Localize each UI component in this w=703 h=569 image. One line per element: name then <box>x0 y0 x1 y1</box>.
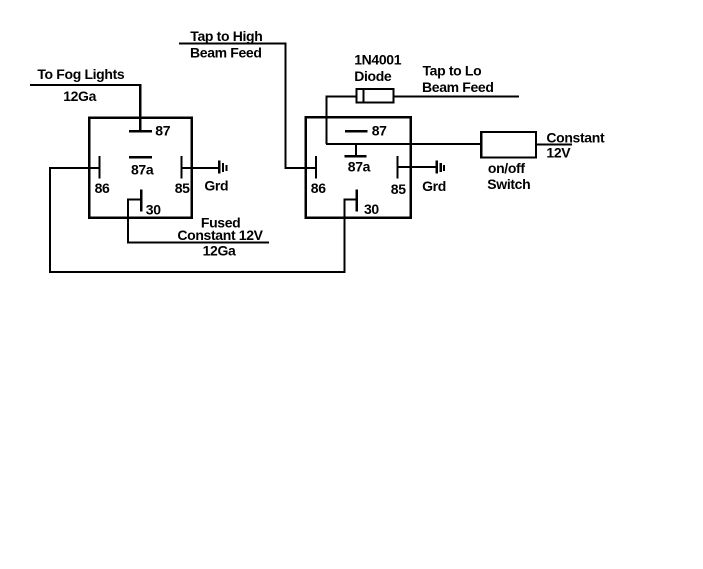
svg-text:Diode: Diode <box>354 68 392 84</box>
svg-text:Grd: Grd <box>204 177 228 193</box>
svg-text:Beam Feed: Beam Feed <box>422 79 494 95</box>
svg-text:12Ga: 12Ga <box>63 88 96 104</box>
svg-text:Beam Feed: Beam Feed <box>190 44 262 60</box>
svg-text:Switch: Switch <box>487 176 530 192</box>
svg-text:Constant 12V: Constant 12V <box>177 227 263 243</box>
svg-text:Tap to Lo: Tap to Lo <box>423 63 482 79</box>
svg-text:12Ga: 12Ga <box>203 243 236 259</box>
svg-text:Tap to High: Tap to High <box>190 28 262 44</box>
svg-text:87: 87 <box>155 123 170 139</box>
svg-text:87a: 87a <box>348 158 371 174</box>
svg-text:87: 87 <box>372 123 387 139</box>
svg-text:85: 85 <box>391 181 406 197</box>
svg-text:86: 86 <box>95 180 110 196</box>
svg-text:12V: 12V <box>546 145 571 161</box>
svg-text:86: 86 <box>311 180 326 196</box>
svg-text:To Fog Lights: To Fog Lights <box>37 66 125 82</box>
svg-text:30: 30 <box>146 201 161 217</box>
svg-text:Constant: Constant <box>546 129 605 145</box>
svg-text:Grd: Grd <box>422 178 446 194</box>
svg-text:30: 30 <box>364 201 379 217</box>
svg-text:1N4001: 1N4001 <box>354 52 402 68</box>
svg-text:87a: 87a <box>131 162 154 178</box>
svg-text:85: 85 <box>175 180 190 196</box>
svg-text:on/off: on/off <box>488 160 525 176</box>
